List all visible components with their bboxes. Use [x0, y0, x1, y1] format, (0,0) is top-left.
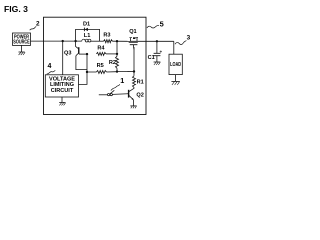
wire: rail R3 to Q1 [113, 40, 131, 42]
svg-text:2: 2 [36, 21, 40, 28]
resistor R4 [96, 52, 106, 55]
node dot R5 left [86, 71, 88, 73]
wire: rail down to voltage limiting circuit [62, 41, 64, 75]
wire: Q3 emitter down and right [76, 56, 87, 70]
ground under C1 [154, 61, 161, 63]
svg-text:Q2: Q2 [136, 93, 143, 99]
leader to label 2 [30, 26, 37, 30]
load box 3 [169, 54, 182, 74]
resistor R1 (vertical) [133, 76, 136, 88]
transistor Q3 [76, 41, 87, 56]
wire: Q1 gate down to R1 [133, 47, 135, 76]
svg-text:C1: C1 [148, 55, 155, 61]
voltage limiting circuit box 4 [45, 75, 78, 97]
svg-text:Q3: Q3 [64, 50, 71, 56]
wire: rail L1 to R3 [91, 40, 104, 42]
svg-text:LOAD: LOAD [170, 62, 181, 68]
ground under load [175, 75, 177, 82]
power source box 2 [13, 33, 31, 45]
svg-text:L1: L1 [84, 33, 91, 39]
wire: R5 node to gate line [117, 71, 134, 73]
ground under Q2 [132, 100, 134, 106]
wire: node down to VLC right side [79, 54, 88, 84]
node dot R5/R2 [116, 70, 118, 72]
svg-text:3: 3 [187, 35, 191, 42]
node dot Q3 base / R4 left [86, 53, 88, 55]
svg-text:4: 4 [48, 63, 52, 70]
node dot C1 tap [156, 40, 158, 42]
diode D1 [84, 28, 88, 32]
svg-text:Q1: Q1 [129, 29, 136, 35]
svg-text:R2: R2 [109, 60, 116, 66]
leader to label 5 [147, 25, 159, 27]
node dot R4 right [116, 53, 118, 55]
node dot R4 rail tap [116, 40, 118, 42]
svg-text:SOURCE: SOURCE [13, 40, 30, 46]
svg-text:R5: R5 [97, 63, 104, 69]
ground under voltage limiting circuit [61, 97, 63, 102]
ground under power source [21, 45, 23, 52]
svg-text:D1: D1 [83, 22, 90, 28]
node dot VLC tap [62, 40, 64, 42]
svg-text:FIG. 3: FIG. 3 [4, 4, 28, 14]
wire: rail down to R4 node [116, 41, 118, 56]
node dot gate line [133, 70, 135, 72]
wire: R5 leads [87, 71, 117, 73]
resistor R2 (vertical) [116, 56, 119, 68]
inductor L1 [82, 39, 91, 42]
wire: rail corner down to load [173, 41, 175, 54]
wire: power source to rail / top rail to L1 [31, 40, 82, 42]
leader to label 4 [47, 70, 56, 74]
wire: rail through Q1 to right [130, 40, 174, 42]
svg-text:1: 1 [120, 76, 124, 85]
chopper circuit box 5 (outer border) [44, 17, 147, 114]
switch 1 [99, 90, 129, 95]
svg-text:R4: R4 [97, 46, 105, 52]
leader to label 1 [111, 84, 120, 90]
transistor Q2 [129, 87, 134, 100]
transistor Q1 (MOSFET) [129, 37, 138, 49]
capacitor C1 [154, 41, 162, 62]
resistor R3 [104, 40, 113, 43]
wire: R4 right lead [106, 53, 117, 55]
leader to label 3 [175, 41, 186, 45]
wire: R2 bottom to node [116, 68, 118, 71]
svg-text:CIRCUIT: CIRCUIT [51, 88, 74, 94]
resistor R5 [96, 71, 106, 74]
svg-text:R3: R3 [103, 33, 110, 39]
svg-text:5: 5 [160, 19, 164, 28]
node dot D1/Q3 tap [74, 40, 76, 42]
diode D1 parallel loop wires [76, 29, 100, 41]
svg-text:R1: R1 [137, 79, 144, 85]
